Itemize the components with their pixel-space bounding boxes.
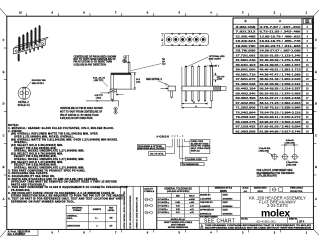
svg-text:PIN AT DATUM -D- BY MORE THAN: PIN AT DATUM -D- BY MORE THAN	[74, 61, 113, 64]
svg-text:52.28-55.39 / 2.058-2.181: 52.28-55.39 / 2.058-2.181	[260, 84, 302, 86]
svg-text:11.88/.468: 11.88/.468	[236, 35, 257, 38]
svg-text:1 OF 4: 1 OF 4	[297, 220, 305, 223]
drawn-by approval column	[199, 186, 240, 229]
svg-text:PROJECTION: PROJECTION	[290, 191, 303, 193]
svg-text:59.40/2.340: 59.40/2.340	[236, 92, 257, 95]
dark top cap of body	[111, 73, 132, 75]
svg-text:INCH: INCH	[258, 191, 264, 193]
svg-text:SEE CHART: SEE CHART	[204, 219, 235, 225]
svg-text:1 PLACE ±: 1 PLACE ±	[158, 208, 169, 211]
leader optional hold-down	[186, 57, 213, 86]
option tree connector lines	[166, 139, 190, 164]
svg-text:THIRD ANGLE: THIRD ANGLE	[290, 187, 304, 190]
dimension under body	[116, 92, 123, 95]
label hole diameter right	[286, 159, 298, 167]
svg-text:K.SAWICKI: K.SAWICKI	[200, 205, 211, 208]
svg-text:A: A	[279, 19, 281, 23]
svg-text:PIN DIMENSIONS: PIN DIMENSIONS	[182, 164, 199, 166]
detail Z circle	[18, 87, 30, 99]
svg-text:4.76-7.87 / .187-.310: 4.76-7.87 / .187-.310	[260, 26, 302, 29]
svg-text:4 PLACES ±: 4 PLACES ±	[158, 198, 170, 201]
label circuit 1	[205, 65, 220, 67]
revision block vertical text	[121, 186, 141, 229]
svg-text:(.045±.002): (.045±.002)	[259, 150, 270, 153]
design units box	[254, 186, 270, 193]
svg-text:RECOMMENDED PCB THICKNESS:: RECOMMENDED PCB THICKNESS:	[257, 173, 295, 175]
svg-text:8.72-11.83 / .343-.466: 8.72-11.83 / .343-.466	[260, 31, 302, 34]
body end tab	[221, 87, 227, 91]
svg-text:MM/IN: MM/IN	[220, 191, 227, 193]
svg-text:NOT TO VARY FROM CENTERLINE OF: NOT TO VARY FROM CENTERLINE OF	[74, 58, 117, 61]
svg-text:SCALE: SCALE	[242, 187, 249, 190]
svg-text:24.56-27.67 / .967-1.089: 24.56-27.67 / .967-1.089	[260, 50, 302, 53]
svg-text:3 PLACES ±: 3 PLACES ±	[158, 201, 170, 204]
svg-text:67.32/2.652: 67.32/2.652	[236, 103, 257, 105]
top view outline	[164, 34, 208, 46]
svg-text:39.60/1.560: 39.60/1.560	[236, 70, 257, 72]
svg-text:(.045±.002): (.045±.002)	[286, 164, 297, 167]
svg-text:19.80/.780: 19.80/.780	[236, 46, 257, 48]
svg-text:2 PLACES ±: 2 PLACES ±	[158, 205, 170, 208]
svg-text:DATE: DATE	[223, 209, 229, 212]
left dimension 0.64	[93, 77, 108, 87]
svg-text:EMBOSSED-BULK PACKED: EMBOSSED-BULK PACKED	[138, 147, 165, 150]
svg-text:SIZE: SIZE	[305, 22, 310, 24]
svg-text:55.44/2.184: 55.44/2.184	[236, 88, 257, 91]
svg-text:2004/03/04: 2004/03/04	[223, 213, 234, 216]
svg-text:DATE: DATE	[223, 201, 229, 204]
revision stamp lower left	[7, 229, 38, 236]
svg-text:NO. OF CKTS.: NO. OF CKTS.	[150, 153, 164, 155]
datum D flag on pin	[122, 59, 128, 63]
dimension 3.25 typ pin width	[213, 73, 225, 83]
svg-text:APPROVED BY: APPROVED BY	[200, 209, 215, 212]
svg-text:DOC NO.: DOC NO.	[241, 218, 248, 220]
svg-text:INCORPORATED AND SHOULD NOT BE: INCORPORATED AND SHOULD NOT BE USED WITH…	[205, 226, 312, 229]
svg-text:64.16-67.27 / 2.526-2.648: 64.16-67.27 / 2.526-2.648	[260, 97, 302, 100]
svg-text:79.20/3.120: 79.20/3.120	[236, 117, 257, 119]
svg-text:D: D	[3, 102, 5, 106]
svg-text:(.41): (.41)	[136, 80, 140, 83]
svg-text:PCB LAYOUT, COMPONENT SIDE: PCB LAYOUT, COMPONENT SIDE	[257, 169, 293, 172]
svg-text:DESIGN UNITS: DESIGN UNITS	[254, 188, 268, 190]
see detail Z label	[146, 78, 163, 81]
svg-text:12.68-15.79 / .499-.622: 12.68-15.79 / .499-.622	[260, 35, 302, 38]
svg-text:(.025 TYP): (.025 TYP)	[94, 80, 104, 82]
svg-text:B: B	[245, 19, 247, 23]
dimension B below front view	[182, 67, 207, 109]
front view body	[182, 86, 219, 91]
svg-text:44.36-47.47 / 1.746-1.869: 44.36-47.47 / 1.746-1.869	[260, 73, 302, 76]
svg-text:28.52-31.63 / 1.123-1.245: 28.52-31.63 / 1.123-1.245	[260, 54, 302, 57]
svg-text:CENTERLINE OF PIN IN AREA SHOW: CENTERLINE OF PIN IN AREA SHOWN	[74, 55, 117, 58]
svg-text:2-24 CKTS: 2-24 CKTS	[267, 203, 288, 208]
svg-text:87.12/3.432: 87.12/3.432	[236, 126, 257, 129]
drawing format table	[66, 205, 117, 229]
isometric pins	[18, 25, 40, 51]
svg-text:J.SCHAFER: J.SCHAFER	[200, 197, 212, 200]
third angle projection box	[272, 187, 304, 193]
svg-text:THIS DRAWING CONTAINS INFORMAT: THIS DRAWING CONTAINS INFORMATION THAT I…	[205, 224, 312, 227]
svg-text:PLATING CODE: PLATING CODE	[187, 158, 203, 161]
drawing title	[249, 195, 306, 208]
svg-text:A: Prod. ATP 25 P 04: A: Prod. ATP 25 P 04	[8, 230, 31, 233]
svg-text:7.92/.312: 7.92/.312	[236, 32, 257, 34]
front view pins below body	[185, 91, 212, 102]
box no of ckts	[149, 152, 166, 156]
svg-text:SHEETS: SHEETS	[93, 209, 102, 211]
svg-text:27.72/1.092: 27.72/1.092	[236, 55, 257, 57]
hatched optional section of body	[214, 86, 221, 91]
svg-text:83.16/3.276: 83.16/3.276	[236, 122, 257, 124]
label spacing tab see note 6	[32, 79, 47, 85]
svg-text:32.48-35.59 / 1.279-1.401: 32.48-35.59 / 1.279-1.401	[260, 59, 302, 62]
svg-text:NOTE 9 ADDED, NOTE 6 REVISED P: NOTE 9 ADDED, NOTE 6 REVISED PER	[123, 191, 126, 229]
svg-text:56.24-59.35 / 2.214-2.337: 56.24-59.35 / 2.214-2.337	[260, 88, 302, 91]
svg-text:3.96/.156: 3.96/.156	[236, 27, 257, 29]
bottom-left dimension 0.25 typ	[95, 92, 110, 99]
isometric pin tail circuit 1	[18, 54, 20, 62]
svg-text:83.96-87.07 / 3.306-3.428: 83.96-87.07 / 3.306-3.428	[260, 121, 302, 124]
see chart document number	[204, 219, 235, 225]
svg-text:91.88-94.99 / 3.617-3.740: 91.88-94.99 / 3.617-3.740	[260, 130, 302, 133]
svg-text:EC NO: UPD2008-1234 APPROVED: EC NO: UPD2008-1234 APPROVED	[129, 195, 132, 229]
svg-text:31.68/1.248: 31.68/1.248	[236, 59, 257, 62]
svg-text:PIN AT DATUM -D- BY MORE THAN: PIN AT DATUM -D- BY MORE THAN	[60, 114, 99, 117]
title block top edge	[121, 185, 314, 187]
svg-text:60.20-63.31 / 2.370-2.493: 60.20-63.31 / 2.370-2.493	[260, 92, 302, 95]
svg-text:47.52/1.872: 47.52/1.872	[236, 78, 257, 81]
svg-text:(.010): (.010)	[96, 98, 102, 100]
circuit size chart table	[233, 18, 313, 133]
centerline tolerance note upper	[74, 55, 117, 66]
scale box	[240, 186, 313, 193]
side view pin up	[128, 61, 130, 72]
box packaging options	[137, 144, 165, 150]
svg-text:1. MATERIAL: HEADER: GLASS FIL: 1. MATERIAL: HEADER: GLASS FILLED POLYES…	[8, 127, 114, 130]
leader from see detail Z to segment	[158, 81, 170, 86]
header body isometric block	[14, 39, 46, 54]
dimension style box	[209, 186, 233, 193]
svg-text:SD-41661-001: SD-41661-001	[256, 219, 276, 223]
molex logo	[261, 209, 290, 220]
svg-text:A-41661-N: A-41661-N	[156, 135, 169, 138]
svg-text:76.04-79.15 / 2.994-3.116: 76.04-79.15 / 2.994-3.116	[260, 111, 302, 114]
isometric pin tail stubs	[25, 46, 43, 54]
svg-text:2→: 2→	[95, 217, 98, 219]
body top face edge	[14, 37, 49, 48]
svg-text:72.08-75.19 / 2.838-2.960: 72.08-75.19 / 2.838-2.960	[260, 108, 302, 110]
svg-text:E: E	[315, 70, 317, 74]
svg-text:LEVEL: LEVEL	[108, 210, 115, 212]
notes text block	[8, 124, 127, 203]
svg-text:SEE DETAIL Z: SEE DETAIL Z	[146, 78, 163, 81]
svg-text:1.57±.18(.062±.007): 1.57±.18(.062±.007)	[257, 176, 277, 178]
isometric view of pin header	[14, 37, 49, 54]
zone ticks and letters left and right edges	[3, 38, 318, 207]
svg-text:16.64-19.75 / .655-.778: 16.64-19.75 / .655-.778	[260, 40, 302, 43]
breakaway segment detached	[168, 86, 176, 98]
svg-text:80.00-83.11 / 3.150-3.272: 80.00-83.11 / 3.150-3.272	[260, 117, 302, 119]
svg-text:63.36/2.496: 63.36/2.496	[236, 97, 257, 100]
svg-text:OPTIONAL HDD: OPTIONAL HDD	[209, 55, 225, 58]
svg-text:DRAWN BY: DRAWN BY	[200, 194, 211, 197]
box plating code	[185, 157, 207, 161]
svg-text:D: D	[315, 102, 317, 106]
svg-text:ANNOTATOR: ANNOTATOR	[67, 225, 80, 228]
svg-text:C: C	[3, 133, 5, 137]
pcb layout hole pattern	[271, 153, 299, 160]
svg-text:SEE CHART: SEE CHART	[209, 57, 222, 60]
svg-text:0.25(.010) IN ANY DIRECTION.: 0.25(.010) IN ANY DIRECTION.	[60, 117, 93, 120]
svg-text:SPACING TAB: SPACING TAB	[32, 79, 47, 82]
pin tip plating note	[131, 59, 166, 70]
svg-text:CIRCUIT 1: CIRCUIT 1	[209, 65, 220, 67]
svg-text:1.14±.05 DIA: 1.14±.05 DIA	[259, 147, 271, 150]
centerline tolerance note lower	[60, 107, 103, 120]
inner pin line	[113, 75, 115, 90]
document number row	[240, 217, 313, 223]
leader spacing tab	[26, 82, 31, 88]
svg-text:WITHIN DIMENSIONS: WITHIN DIMENSIONS	[168, 227, 189, 229]
box third code	[190, 140, 211, 154]
svg-text:NOT TO VARY FROM CENTERLINE OF: NOT TO VARY FROM CENTERLINE OF	[60, 111, 103, 114]
svg-text:DRWN: KY DATE 2010/01/07 CHK: DRWN: KY DATE 2010/01/07 CHK	[135, 197, 138, 229]
svg-text:48.32-51.43 / 1.902-2.025: 48.32-51.43 / 1.902-2.025	[260, 78, 302, 81]
svg-text:0 PLACES ±: 0 PLACES ±	[158, 211, 170, 214]
dimension to breakaway segment	[161, 83, 168, 89]
table data rows	[233, 26, 313, 133]
svg-text:E: E	[3, 70, 5, 74]
svg-text:(UNLESS SPECIFIED): (UNLESS SPECIFIED)	[167, 191, 190, 193]
label detail Z scale 4:1	[18, 101, 31, 107]
front view pins above body	[185, 65, 212, 86]
svg-text:A: A	[315, 197, 317, 201]
box pin dimensions	[181, 162, 204, 166]
datum flag symbols lower note	[114, 107, 117, 114]
svg-text:DIMENSION STYLE: DIMENSION STYLE	[215, 188, 233, 190]
svg-text:36.44-39.55 / 1.435-1.557: 36.44-39.55 / 1.435-1.557	[260, 64, 302, 67]
part number callout	[156, 135, 183, 138]
dimension line under side view	[86, 100, 119, 106]
side view pin down with boss	[110, 89, 116, 100]
svg-text:GENERAL TOLERANCES: GENERAL TOLERANCES	[164, 187, 192, 190]
svg-text:40.40-43.51 / 1.591-1.713: 40.40-43.51 / 1.591-1.713	[260, 69, 302, 72]
svg-text:71.28/2.808: 71.28/2.808	[236, 108, 257, 110]
dimension 3.96 pitch	[281, 140, 298, 153]
top view left dimension	[161, 34, 164, 46]
top view pin circles	[166, 37, 206, 42]
top view notch circles	[172, 33, 201, 46]
dimension A below front view	[182, 102, 211, 109]
svg-text:2004/03/04: 2004/03/04	[223, 205, 234, 208]
svg-text:SEE NOTE 6: SEE NOTE 6	[32, 83, 45, 85]
svg-text:WITH #31: WITH #31	[191, 151, 201, 153]
datum flag symbols upper note	[124, 55, 129, 63]
svg-text:* * * - *: * * * - *	[172, 136, 184, 138]
proprietary disclaimer strip	[199, 223, 313, 229]
svg-text:SYMBOLS: SYMBOLS	[144, 191, 155, 193]
svg-text:B: B	[315, 165, 317, 169]
svg-text:CENTERLINE OF PIN IN AREA SHOW: CENTERLINE OF PIN IN AREA SHOWN	[60, 107, 103, 110]
svg-text:0.25(.010) IN ANY DIRECTION.: 0.25(.010) IN ANY DIRECTION.	[74, 63, 107, 66]
svg-text:(.156±.002): (.156±.002)	[285, 143, 296, 145]
pin cross-section inside detail Z	[23, 88, 26, 98]
svg-text:68.12-71.23 / 2.682-2.804: 68.12-71.23 / 2.682-2.804	[260, 102, 302, 105]
svg-text:91.08/3.588: 91.08/3.588	[236, 131, 257, 133]
svg-text:3: 3	[201, 227, 202, 229]
svg-text:molex: molex	[261, 209, 290, 220]
svg-text:SCALE 4:1: SCALE 4:1	[18, 104, 31, 107]
svg-text:1.14±.05 DIA: 1.14±.05 DIA	[286, 161, 298, 164]
svg-text:DATE: DATE	[223, 194, 229, 197]
breakaway notch circles	[15, 50, 17, 52]
svg-text:FORMAT: FORMAT	[73, 209, 82, 212]
side view body	[111, 73, 132, 89]
svg-text:51.48/2.028: 51.48/2.028	[236, 83, 257, 86]
right dimension 16.13	[131, 73, 141, 89]
svg-text:20.60-23.71 / .811-.933: 20.60-23.71 / .811-.933	[260, 46, 302, 48]
svg-text:A: A	[3, 197, 5, 201]
pcb layout caption	[257, 169, 295, 178]
svg-text:MARGIE LIS: MARGIE LIS	[200, 213, 212, 216]
svg-text:B: B	[3, 165, 5, 169]
general tolerances box	[157, 186, 199, 229]
svg-text:9.1: 9.1	[162, 39, 164, 42]
svg-text:DSCL: DSCL	[67, 218, 73, 220]
svg-text:23.76/.936: 23.76/.936	[236, 51, 257, 53]
svg-text:87.92-91.03 / 3.461-3.584: 87.92-91.03 / 3.461-3.584	[260, 126, 302, 129]
svg-text:C: C	[315, 133, 317, 137]
svg-text:15.84/.624: 15.84/.624	[236, 40, 257, 43]
svg-text:35.64/1.404: 35.64/1.404	[236, 64, 257, 67]
quality symbols box	[144, 186, 157, 229]
svg-text:75.24/2.964: 75.24/2.964	[236, 111, 257, 114]
svg-text:43.56/1.716: 43.56/1.716	[236, 73, 257, 76]
svg-text:(.128): (.128)	[217, 79, 222, 81]
svg-text:2004/03/04: 2004/03/04	[223, 197, 234, 200]
label optional hold-down	[209, 55, 225, 61]
label hole diameter left	[259, 147, 273, 156]
svg-text:CHECKED BY: CHECKED BY	[200, 202, 214, 204]
svg-text:DEPENDING ON PART NUMBER AND/O: DEPENDING ON PART NUMBER AND/OR TOOL.	[11, 200, 75, 203]
